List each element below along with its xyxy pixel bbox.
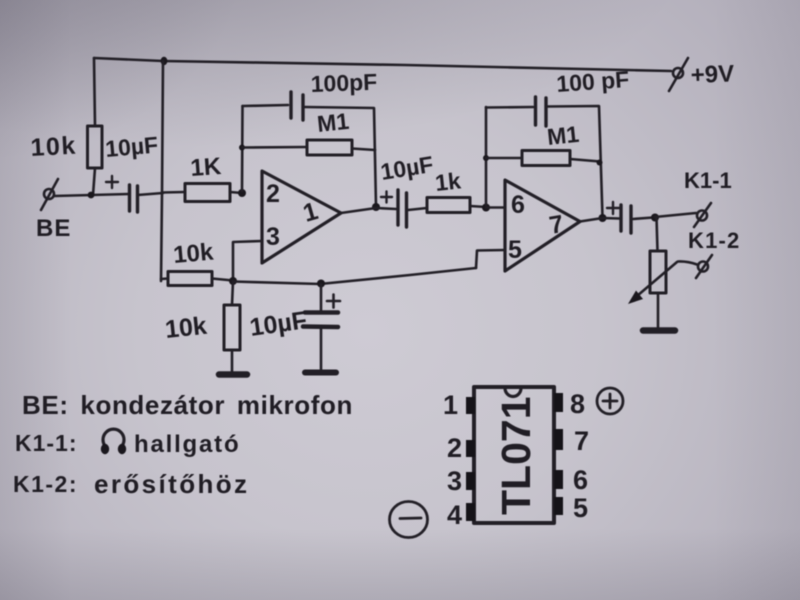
node rail junction bbox=[161, 57, 168, 65]
svg-text:10k: 10k bbox=[30, 132, 78, 162]
icon headphone bbox=[101, 429, 126, 454]
IC pin 2 bbox=[466, 440, 475, 457]
svg-text:7: 7 bbox=[574, 426, 589, 456]
svg-text:100pF: 100pF bbox=[310, 69, 377, 97]
node M2 left bbox=[483, 155, 489, 161]
node output junction bbox=[651, 214, 659, 222]
terminal BE bbox=[41, 179, 58, 210]
svg-text:hallgató: hallgató bbox=[134, 431, 240, 458]
capacitor C2 100pF plates bbox=[291, 92, 303, 120]
ground C6 bbox=[305, 370, 336, 376]
svg-text:K1-2: K1-2 bbox=[688, 228, 741, 253]
label plus supply circled bbox=[597, 388, 623, 414]
capacitor C3 plus sign bbox=[381, 192, 392, 203]
ground R7 bbox=[219, 371, 247, 378]
capacitor C4 100pF plates bbox=[536, 97, 547, 126]
wire mid horizontal to pin5 bbox=[233, 268, 476, 284]
svg-text:10k: 10k bbox=[164, 312, 209, 344]
svg-text:erősítőhöz: erősítőhöz bbox=[94, 469, 249, 499]
resistor R4 M1 bbox=[307, 140, 352, 155]
wire C3 left bbox=[376, 208, 396, 209]
wire M2 right bbox=[570, 159, 600, 162]
wire R3 to node bbox=[230, 192, 242, 193]
svg-text:K1-1: K1-1 bbox=[684, 168, 732, 193]
wire left branch lower bbox=[93, 168, 95, 195]
svg-text:3: 3 bbox=[447, 466, 462, 496]
wire R5 to node bbox=[470, 206, 486, 207]
wire feedback2 top right and right vertical bbox=[548, 106, 603, 217]
wire C3 right bbox=[408, 208, 427, 210]
svg-text:10µF: 10µF bbox=[104, 131, 159, 162]
resistor R5 1k bbox=[427, 198, 470, 213]
wire to R3 bbox=[162, 191, 185, 194]
svg-text:4: 4 bbox=[447, 500, 462, 530]
potentiometer P1 wiper arrow bbox=[637, 262, 677, 296]
wire bias to R2 bbox=[161, 277, 168, 280]
svg-text:M1: M1 bbox=[316, 108, 351, 137]
svg-text:1: 1 bbox=[443, 390, 458, 420]
terminal +9V bbox=[669, 58, 688, 91]
svg-text:5: 5 bbox=[573, 493, 588, 523]
wire bias vertical bbox=[161, 61, 163, 281]
resistor R7 10k vertical bbox=[224, 305, 240, 350]
svg-text:2: 2 bbox=[447, 433, 462, 463]
capacitor C1 10uF plates bbox=[130, 185, 138, 212]
ground potentiometer bbox=[643, 327, 675, 334]
svg-text:K1-2:: K1-2: bbox=[13, 471, 78, 497]
wire pin5 bbox=[476, 250, 505, 268]
svg-text:+9V: +9V bbox=[690, 60, 734, 88]
capacitor C6 wire top bbox=[320, 284, 323, 310]
resistor R3 1K bbox=[185, 184, 230, 202]
svg-text:10µF: 10µF bbox=[379, 151, 435, 185]
IC pin 1 bbox=[466, 397, 475, 414]
wire R7 to ground bbox=[231, 350, 234, 371]
svg-text:1K: 1K bbox=[190, 153, 223, 182]
wire left branch upper bbox=[94, 58, 95, 126]
terminal K1-2 bbox=[696, 255, 712, 278]
resistor R1 10k vertical bbox=[88, 126, 103, 168]
wire BE to C1 bbox=[54, 194, 129, 196]
capacitor C5 plates bbox=[621, 205, 631, 233]
svg-text:3: 3 bbox=[266, 223, 280, 251]
capacitor C6 plates bbox=[303, 313, 338, 328]
terminal K1-1 bbox=[694, 203, 711, 227]
node M1 left bbox=[239, 145, 245, 151]
IC pin 5 bbox=[554, 497, 563, 515]
wire potentiometer to ground bbox=[657, 293, 660, 328]
wire pin3 input bbox=[233, 241, 262, 279]
IC pin 3 bbox=[466, 472, 475, 490]
node M2 right bbox=[597, 160, 603, 166]
label minus supply circled bbox=[390, 502, 428, 538]
node output 1 bbox=[372, 203, 380, 211]
capacitor C3 10uF plates bbox=[398, 190, 407, 227]
node C6 top bbox=[317, 280, 325, 288]
node BE junction bbox=[88, 192, 95, 199]
resistor R2 10k horizontal bbox=[168, 272, 212, 286]
IC pin 8 bbox=[554, 393, 563, 412]
op-amp U1A bbox=[262, 171, 341, 263]
wire feedback1 top right and right vertical bbox=[305, 107, 376, 206]
svg-text:K1-1:: K1-1: bbox=[15, 430, 78, 456]
svg-text:2: 2 bbox=[266, 180, 280, 208]
wire to K1-1 bbox=[655, 213, 696, 217]
wire feedback1 left vertical bbox=[241, 106, 244, 191]
IC body TL071 bbox=[474, 387, 554, 523]
svg-text:10k: 10k bbox=[172, 239, 215, 269]
IC pin 4 bbox=[466, 503, 475, 521]
capacitor C6 plus sign bbox=[327, 295, 340, 308]
svg-text:100 pF: 100 pF bbox=[556, 66, 631, 97]
potentiometer P1 body bbox=[650, 251, 666, 293]
wire +9V supply rail bbox=[94, 58, 671, 71]
wire output1 bbox=[341, 208, 376, 213]
node bias junction bbox=[229, 277, 237, 285]
svg-text:BE: BE bbox=[36, 215, 71, 242]
wire C5 right bbox=[633, 218, 653, 220]
wire pin6 bbox=[486, 206, 505, 209]
node inverting input 1 bbox=[238, 189, 246, 197]
svg-text:8: 8 bbox=[570, 389, 585, 419]
wire feedback2 left vertical bbox=[485, 107, 488, 205]
wire output2 bbox=[580, 218, 603, 222]
svg-text:1k: 1k bbox=[434, 167, 462, 196]
node inverting input 2 bbox=[482, 204, 490, 212]
wire R2 to node bbox=[212, 279, 233, 281]
wire C5 left bbox=[603, 217, 620, 220]
wire feedback2 top left bbox=[486, 106, 533, 109]
wire wiper to K1-2 bbox=[678, 261, 697, 264]
svg-text:6: 6 bbox=[573, 465, 588, 495]
wire C1 to bias vertical bbox=[138, 193, 164, 195]
svg-text:M1: M1 bbox=[546, 121, 581, 150]
op-amp U1B bbox=[505, 180, 580, 271]
wire junction down bbox=[232, 281, 233, 305]
resistor R6 M1 bbox=[522, 151, 570, 166]
svg-text:5: 5 bbox=[508, 236, 522, 264]
svg-text:10µF: 10µF bbox=[248, 306, 309, 342]
capacitor C5 plus sign bbox=[607, 202, 619, 214]
IC pin 6 bbox=[554, 470, 563, 489]
wire feedback1 top left bbox=[243, 105, 289, 106]
svg-text:BE: kondezátor mikrofon: BE: kondezátor mikrofon bbox=[22, 390, 353, 420]
svg-text:7: 7 bbox=[547, 210, 566, 240]
node output 2 bbox=[599, 214, 607, 222]
wire to potentiometer bbox=[657, 218, 658, 252]
wire M1a left bbox=[242, 146, 307, 149]
wire M2 left bbox=[486, 157, 522, 160]
capacitor C1 10uF plus sign bbox=[106, 176, 118, 188]
svg-text:TL071: TL071 bbox=[493, 397, 539, 516]
svg-text:6: 6 bbox=[511, 191, 525, 219]
wire M1a right bbox=[352, 149, 375, 151]
IC pin 7 bbox=[554, 429, 563, 450]
capacitor C6 wire bottom bbox=[320, 328, 323, 369]
IC notch bbox=[505, 388, 521, 397]
